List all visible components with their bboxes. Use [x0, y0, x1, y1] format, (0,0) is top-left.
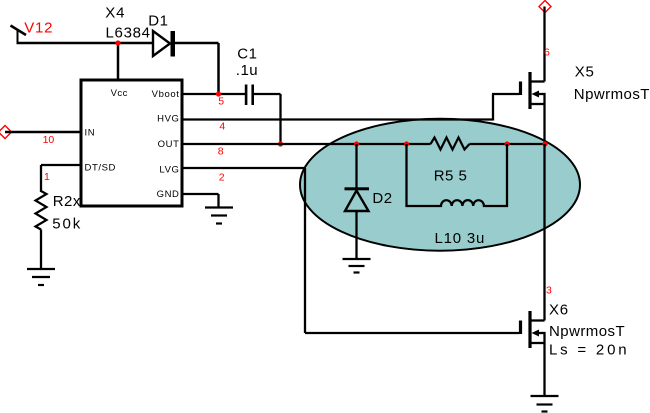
- svg-text:L6384: L6384: [106, 24, 151, 41]
- terminal top diamond: [539, 1, 551, 13]
- svg-text:1: 1: [44, 171, 50, 183]
- wire Vcc drop: [117, 43, 120, 80]
- wire pin OUT: [182, 143, 431, 145]
- svg-text:NpwrmosT: NpwrmosT: [574, 86, 650, 103]
- wire pin LVG: [182, 167, 305, 169]
- svg-text:R2x: R2x: [53, 193, 81, 210]
- svg-text:10: 10: [43, 134, 55, 146]
- wire OUT right of R5: [470, 143, 546, 145]
- svg-text:50k: 50k: [52, 216, 82, 233]
- highlight ellipse (snubber region): [300, 119, 580, 251]
- svg-text:OUT: OUT: [158, 139, 180, 150]
- svg-text:IN: IN: [85, 127, 96, 138]
- op-amp driver IC U-box X4 L6384: [81, 80, 182, 206]
- svg-text:LVG: LVG: [159, 165, 179, 176]
- junction dot Vboot: [216, 91, 221, 96]
- wire corner down to OUT: [279, 94, 281, 145]
- svg-text:.1u: .1u: [236, 62, 258, 79]
- wire DT/SD drop to R2: [40, 165, 42, 192]
- capacitor C1: [245, 85, 254, 106]
- wire pin HVG: [182, 118, 493, 120]
- svg-text:L10 3u: L10 3u: [435, 230, 486, 247]
- svg-text:4: 4: [219, 121, 225, 133]
- svg-text:C1: C1: [237, 45, 257, 62]
- transistor X6: [521, 311, 546, 348]
- svg-text:D2: D2: [372, 190, 392, 207]
- svg-text:6: 6: [544, 47, 550, 59]
- svg-text:NpwrmosT: NpwrmosT: [549, 323, 625, 340]
- ground R2: [27, 269, 55, 285]
- junction dot Vcc rail: [115, 40, 120, 45]
- svg-text:8: 8: [218, 146, 224, 158]
- svg-text:D1: D1: [148, 12, 168, 29]
- svg-text:DT/SD: DT/SD: [85, 163, 117, 174]
- wire C1 right to corner: [254, 93, 281, 95]
- wire D1 cathode to corner: [175, 42, 219, 45]
- wire LVG drop: [304, 168, 306, 333]
- wire pin GND: [182, 193, 219, 195]
- wire L10 left vertical: [405, 144, 407, 207]
- junction dot C1/OUT: [278, 141, 283, 146]
- diode D2: [345, 187, 370, 211]
- svg-text:HVG: HVG: [157, 113, 179, 124]
- wire D2 to ground: [355, 211, 357, 259]
- junction dot R5 left: [404, 141, 409, 146]
- inductor L10: [406, 200, 509, 206]
- wire corner down to Vboot: [217, 43, 220, 95]
- svg-text:GND: GND: [157, 189, 180, 200]
- junction dot OUT/D2: [354, 141, 359, 146]
- wire R2 bottom: [40, 230, 42, 270]
- wire D2 stem upper: [355, 144, 357, 188]
- transistor X5: [521, 72, 546, 109]
- svg-text:R5 5: R5 5: [434, 167, 468, 184]
- wire X5 drain vertical: [543, 7, 545, 82]
- wire X6 drain vertical: [543, 144, 545, 321]
- svg-text:X4: X4: [105, 5, 125, 22]
- diode D1: [153, 31, 175, 57]
- svg-text:5: 5: [218, 95, 224, 107]
- terminal input diamond: [0, 126, 12, 139]
- wire L10 right vertical: [506, 144, 508, 207]
- svg-text:Ls = 20n: Ls = 20n: [549, 342, 629, 359]
- svg-text:2: 2: [219, 171, 225, 183]
- svg-text:Vcc: Vcc: [111, 88, 128, 99]
- ground IC GND: [205, 208, 233, 224]
- wire X6 source to ground: [543, 332, 545, 396]
- resistor R2: [36, 191, 47, 230]
- wire X5 gate lead: [492, 93, 520, 95]
- resistor R5: [431, 138, 470, 150]
- terminal V12 slash: [11, 26, 27, 36]
- wire GND drop: [217, 194, 219, 208]
- ground X6: [531, 396, 559, 412]
- svg-text:X5: X5: [575, 63, 595, 80]
- svg-text:3: 3: [546, 284, 552, 296]
- wire LVG run to X6 gate: [305, 332, 520, 334]
- wire HVG riser to X5 gate: [492, 94, 494, 121]
- wire V12 rail to D1 anode: [17, 42, 154, 45]
- wire pin DT/SD: [41, 164, 81, 166]
- wire pin IN: [5, 131, 81, 134]
- wire X5 source to OUT: [543, 93, 545, 145]
- ground D2: [343, 259, 371, 273]
- svg-text:X6: X6: [549, 301, 569, 318]
- wire V12 stub vertical: [17, 30, 19, 43]
- junction dot R5 right: [504, 141, 509, 146]
- wire pin Vboot: [182, 93, 245, 95]
- svg-text:V12: V12: [24, 20, 53, 37]
- svg-text:Vboot: Vboot: [152, 89, 180, 100]
- junction dot phase node: [542, 141, 547, 146]
